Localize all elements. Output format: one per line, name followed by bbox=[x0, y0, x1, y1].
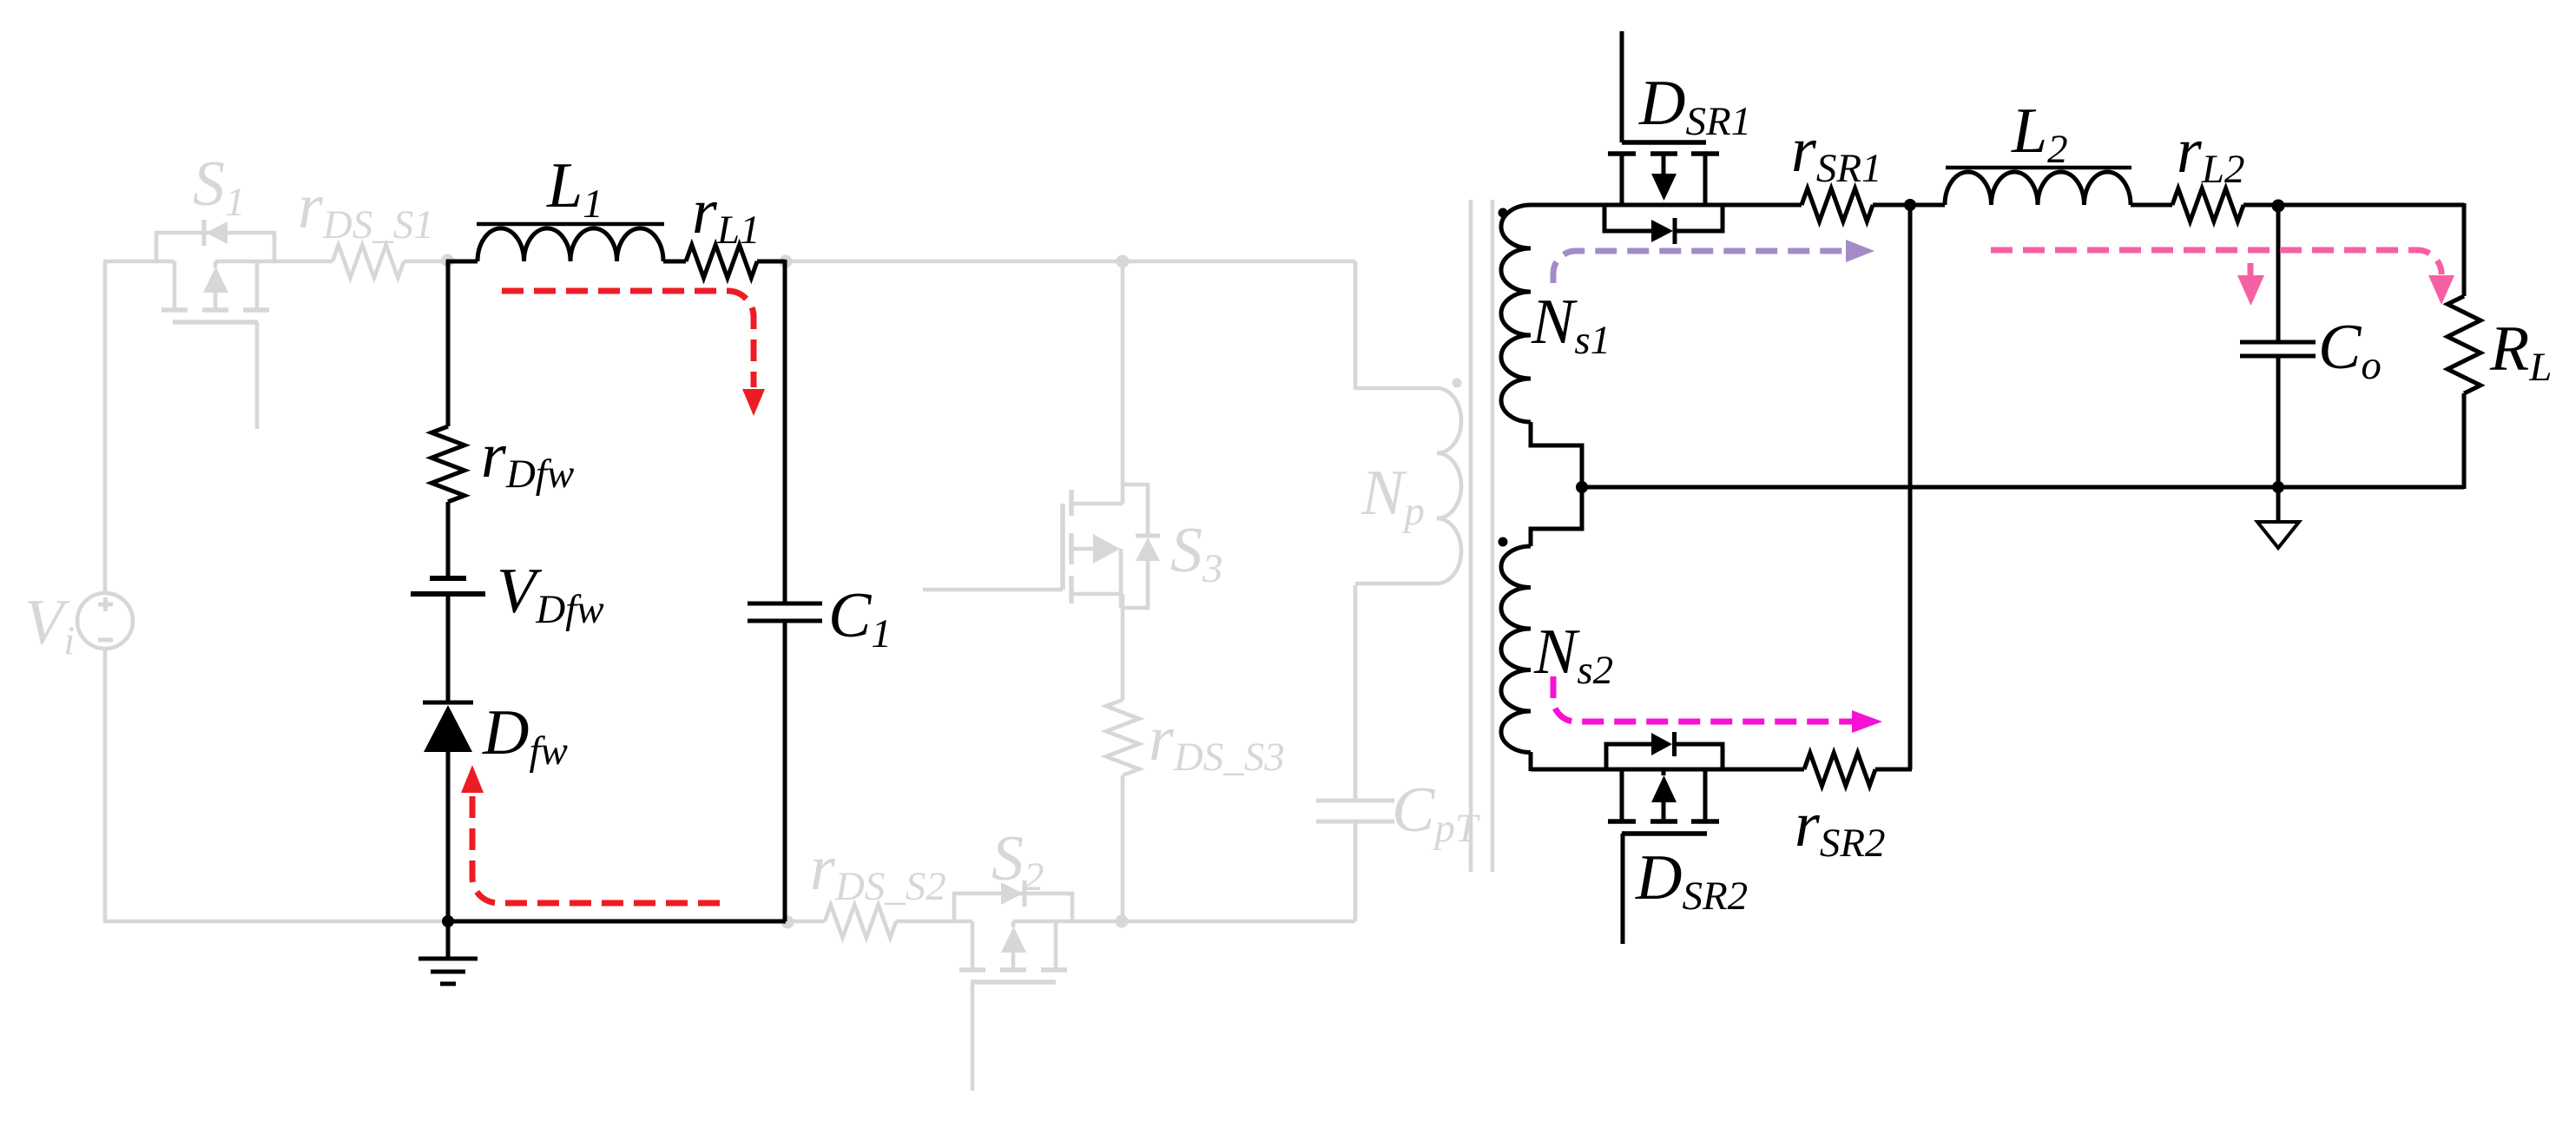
voltage source Vi bbox=[77, 593, 133, 649]
wire Co node to RL corner bbox=[2278, 203, 2464, 208]
ground symbol output bbox=[2257, 487, 2299, 548]
label CpT bbox=[1392, 775, 1480, 851]
node dot ground junction bbox=[442, 915, 454, 927]
transistor S2 channel bbox=[959, 921, 1067, 1091]
label S2 bbox=[992, 823, 1044, 900]
current path purple bbox=[1553, 240, 1874, 283]
transistor DSR1 gate bbox=[1622, 31, 1706, 142]
wire secondary top bbox=[1531, 203, 1802, 208]
label rL2 bbox=[2177, 115, 2244, 192]
polarity dot Ns2 bbox=[1499, 537, 1508, 547]
transistor S1 channel bbox=[161, 261, 269, 429]
wire node to L1 bbox=[446, 260, 478, 264]
wire rDS_S1 to node bbox=[404, 260, 450, 264]
node dot Co bottom bbox=[2272, 481, 2284, 493]
polarity dot Np bbox=[1453, 379, 1462, 388]
capacitor Co bbox=[2240, 342, 2316, 356]
transistor DSR2 gate bbox=[1622, 834, 1707, 944]
wire RL branch lower bbox=[2462, 393, 2467, 489]
node dot at C1 branch bbox=[780, 255, 793, 268]
wire secondary bottom bbox=[1531, 768, 1804, 772]
transistor DSR2 body diode bbox=[1606, 732, 1723, 769]
inductor L1 bbox=[477, 224, 664, 261]
wire bottom rail mid bbox=[784, 920, 825, 924]
wire Vi bottom to bottom rail bbox=[103, 649, 108, 923]
wire rDS_S2 to S2 bbox=[896, 920, 972, 924]
current path red bottom bbox=[461, 765, 728, 903]
wire Co branch lower bbox=[2276, 356, 2281, 487]
wire center tap rail bbox=[1582, 485, 2464, 490]
winding Ns2 bbox=[1501, 487, 1582, 771]
node dot Co top bbox=[2272, 200, 2285, 213]
wire rDS_S3 to bottom rail bbox=[1121, 775, 1125, 923]
current path pink bbox=[1991, 250, 2454, 306]
wire CpT to Np bbox=[1354, 585, 1358, 801]
resistor rL1 bbox=[686, 245, 757, 278]
label rDS_S3 bbox=[1149, 703, 1285, 780]
node dot at L1 branch bbox=[441, 254, 454, 267]
label Np bbox=[1360, 458, 1425, 534]
transistor S2 body diode bbox=[954, 880, 1072, 921]
ground symbol primary bbox=[418, 921, 478, 984]
resistor rSR2 bbox=[1804, 753, 1875, 786]
transistor DSR1 channel bbox=[1608, 154, 1719, 205]
wire node to L2 bbox=[1910, 203, 1945, 208]
transistor DSR1 body diode bbox=[1604, 205, 1723, 244]
label C1 bbox=[828, 580, 892, 656]
node dot secondary top bbox=[1904, 199, 1916, 211]
label L2 bbox=[2011, 96, 2068, 172]
capacitor CpT bbox=[1316, 801, 1394, 821]
wire rSR1 to node bbox=[1873, 203, 1912, 208]
label S3 bbox=[1170, 515, 1223, 591]
label Ns2 bbox=[1533, 617, 1613, 693]
transformer core lines bbox=[1471, 200, 1492, 872]
transistor S3 channel bbox=[923, 490, 1123, 608]
label RL bbox=[2489, 313, 2552, 390]
wire top rail right of C1 node bbox=[784, 260, 1355, 264]
label rDS_S1 bbox=[298, 171, 434, 247]
label rSR1 bbox=[1791, 115, 1882, 191]
wire rL2 to Co node bbox=[2243, 203, 2278, 208]
label rSR2 bbox=[1795, 789, 1886, 866]
transistor S3 body diode bbox=[1123, 485, 1160, 608]
current path magenta bbox=[1553, 676, 1882, 733]
wire C1 branch lower bbox=[783, 621, 787, 921]
current path red top bbox=[502, 291, 765, 416]
label Dfw bbox=[482, 697, 568, 774]
polarity dot Ns1 bbox=[1499, 208, 1508, 218]
resistor RL bbox=[2448, 296, 2480, 393]
label Vi bbox=[24, 587, 75, 663]
wire bottom rail left bbox=[103, 920, 448, 924]
label DSR2 bbox=[1635, 842, 1748, 919]
wire top rail left bbox=[103, 260, 175, 264]
label L1 bbox=[546, 150, 603, 227]
battery VDfw bbox=[411, 578, 485, 594]
wire vertical node branch bbox=[1908, 205, 1913, 769]
winding Np bbox=[1355, 261, 1461, 584]
resistor rSR1 bbox=[1802, 188, 1873, 221]
wire L1 to rL1 bbox=[663, 260, 686, 264]
wire Co branch upper bbox=[2276, 205, 2281, 342]
wire Dfw branch top bbox=[446, 260, 451, 426]
wire VDfw to Dfw bbox=[446, 594, 451, 703]
wire S2 to CpT riser bbox=[1013, 920, 1355, 924]
wire C1 branch upper bbox=[783, 260, 787, 603]
wire S3 source to rDS_S3 bbox=[1121, 608, 1125, 700]
label Co bbox=[2318, 312, 2382, 388]
wire RL branch upper bbox=[2462, 203, 2467, 296]
label VDfw bbox=[497, 556, 604, 632]
resistor rDS_S3 bbox=[1106, 700, 1139, 775]
label rDfw bbox=[481, 420, 574, 497]
transistor S3 drain wire bbox=[1121, 261, 1125, 504]
winding Ns1 bbox=[1501, 203, 1582, 487]
resistor rL2 bbox=[2172, 188, 2243, 221]
resistor rDfw bbox=[432, 426, 464, 502]
label DSR1 bbox=[1638, 68, 1751, 144]
node dot at S3 branch bbox=[1117, 255, 1130, 268]
wire Dfw to bottom rail bbox=[446, 752, 451, 923]
wire rDfw to VDfw bbox=[446, 502, 451, 578]
label S1 bbox=[193, 148, 246, 225]
wire S1 to rDS_S1 bbox=[215, 260, 333, 264]
capacitor C1 bbox=[748, 603, 822, 621]
node dot right of C1 bottom bbox=[781, 916, 794, 929]
label rL1 bbox=[692, 176, 760, 253]
wire L2 to rL2 bbox=[2131, 203, 2172, 208]
wire bottom rail black bbox=[448, 920, 786, 924]
wire Vi top to rail bbox=[103, 261, 108, 593]
resistor rDS_S2 bbox=[825, 905, 896, 938]
transistor DSR2 channel bbox=[1608, 769, 1719, 821]
wire rSR2 to corner bbox=[1875, 768, 1912, 772]
label rDS_S2 bbox=[810, 833, 946, 909]
diode Dfw bbox=[423, 702, 473, 752]
inductor L2 bbox=[1945, 168, 2131, 205]
transistor S1 body diode bbox=[156, 220, 274, 261]
resistor rDS_S1 bbox=[333, 245, 404, 278]
center tap junction dot bbox=[1576, 481, 1588, 493]
node dot at S3 bottom bbox=[1116, 915, 1129, 928]
wire rL1 to C1 corner bbox=[757, 260, 785, 264]
wire CpT riser bbox=[1354, 821, 1358, 921]
label Ns1 bbox=[1531, 287, 1611, 363]
